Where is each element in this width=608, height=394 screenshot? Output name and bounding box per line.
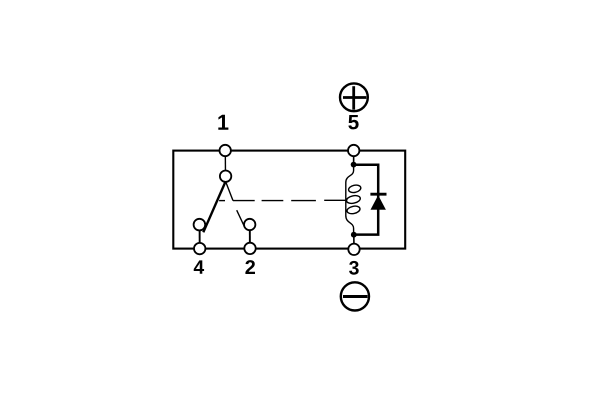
plus polarity symbol circle <box>340 83 368 111</box>
coil spine wire <box>346 163 354 236</box>
minus polarity symbol circle <box>341 282 369 310</box>
wire terminal 1 to pivot <box>224 151 226 177</box>
switch armature (closed contact to 4) <box>203 182 225 233</box>
junction dot coil bottom <box>351 232 357 238</box>
wire coil bottom junction to terminal 3 <box>353 235 355 250</box>
diode triangle <box>371 196 385 210</box>
node terminal 4 lower <box>194 243 205 254</box>
node terminal 1 <box>220 145 231 156</box>
node terminal 2 lower <box>244 243 255 254</box>
label 1 <box>218 115 228 130</box>
label 4 <box>194 260 204 273</box>
relay body rectangle <box>173 151 405 249</box>
wire terminal 4 stem <box>199 225 201 249</box>
node terminal 2 upper <box>244 219 255 230</box>
plus sign <box>343 96 366 99</box>
coil loop 3 <box>346 205 360 215</box>
label 3 <box>349 261 359 275</box>
wire terminal 2 stem <box>249 225 251 249</box>
diode branch wiring <box>354 165 379 235</box>
coil loop 1 <box>348 184 362 194</box>
junction dot coil top <box>351 162 357 168</box>
node pivot <box>220 171 231 182</box>
wire terminal 5 to coil junction <box>353 151 355 166</box>
dashed mechanical link line <box>219 199 347 201</box>
node terminal 3 <box>348 244 359 255</box>
label 5 <box>348 115 358 129</box>
node terminal 4 upper <box>194 219 206 231</box>
switch alternate contact line to 2 (segment a) <box>226 182 233 200</box>
switch alternate contact line to 2 (segment b) <box>237 210 244 225</box>
minus sign <box>343 295 368 298</box>
node terminal 5 <box>348 145 359 156</box>
diode cathode bar <box>370 193 386 196</box>
coil loop 2 <box>346 194 361 204</box>
label 2 <box>245 260 255 274</box>
